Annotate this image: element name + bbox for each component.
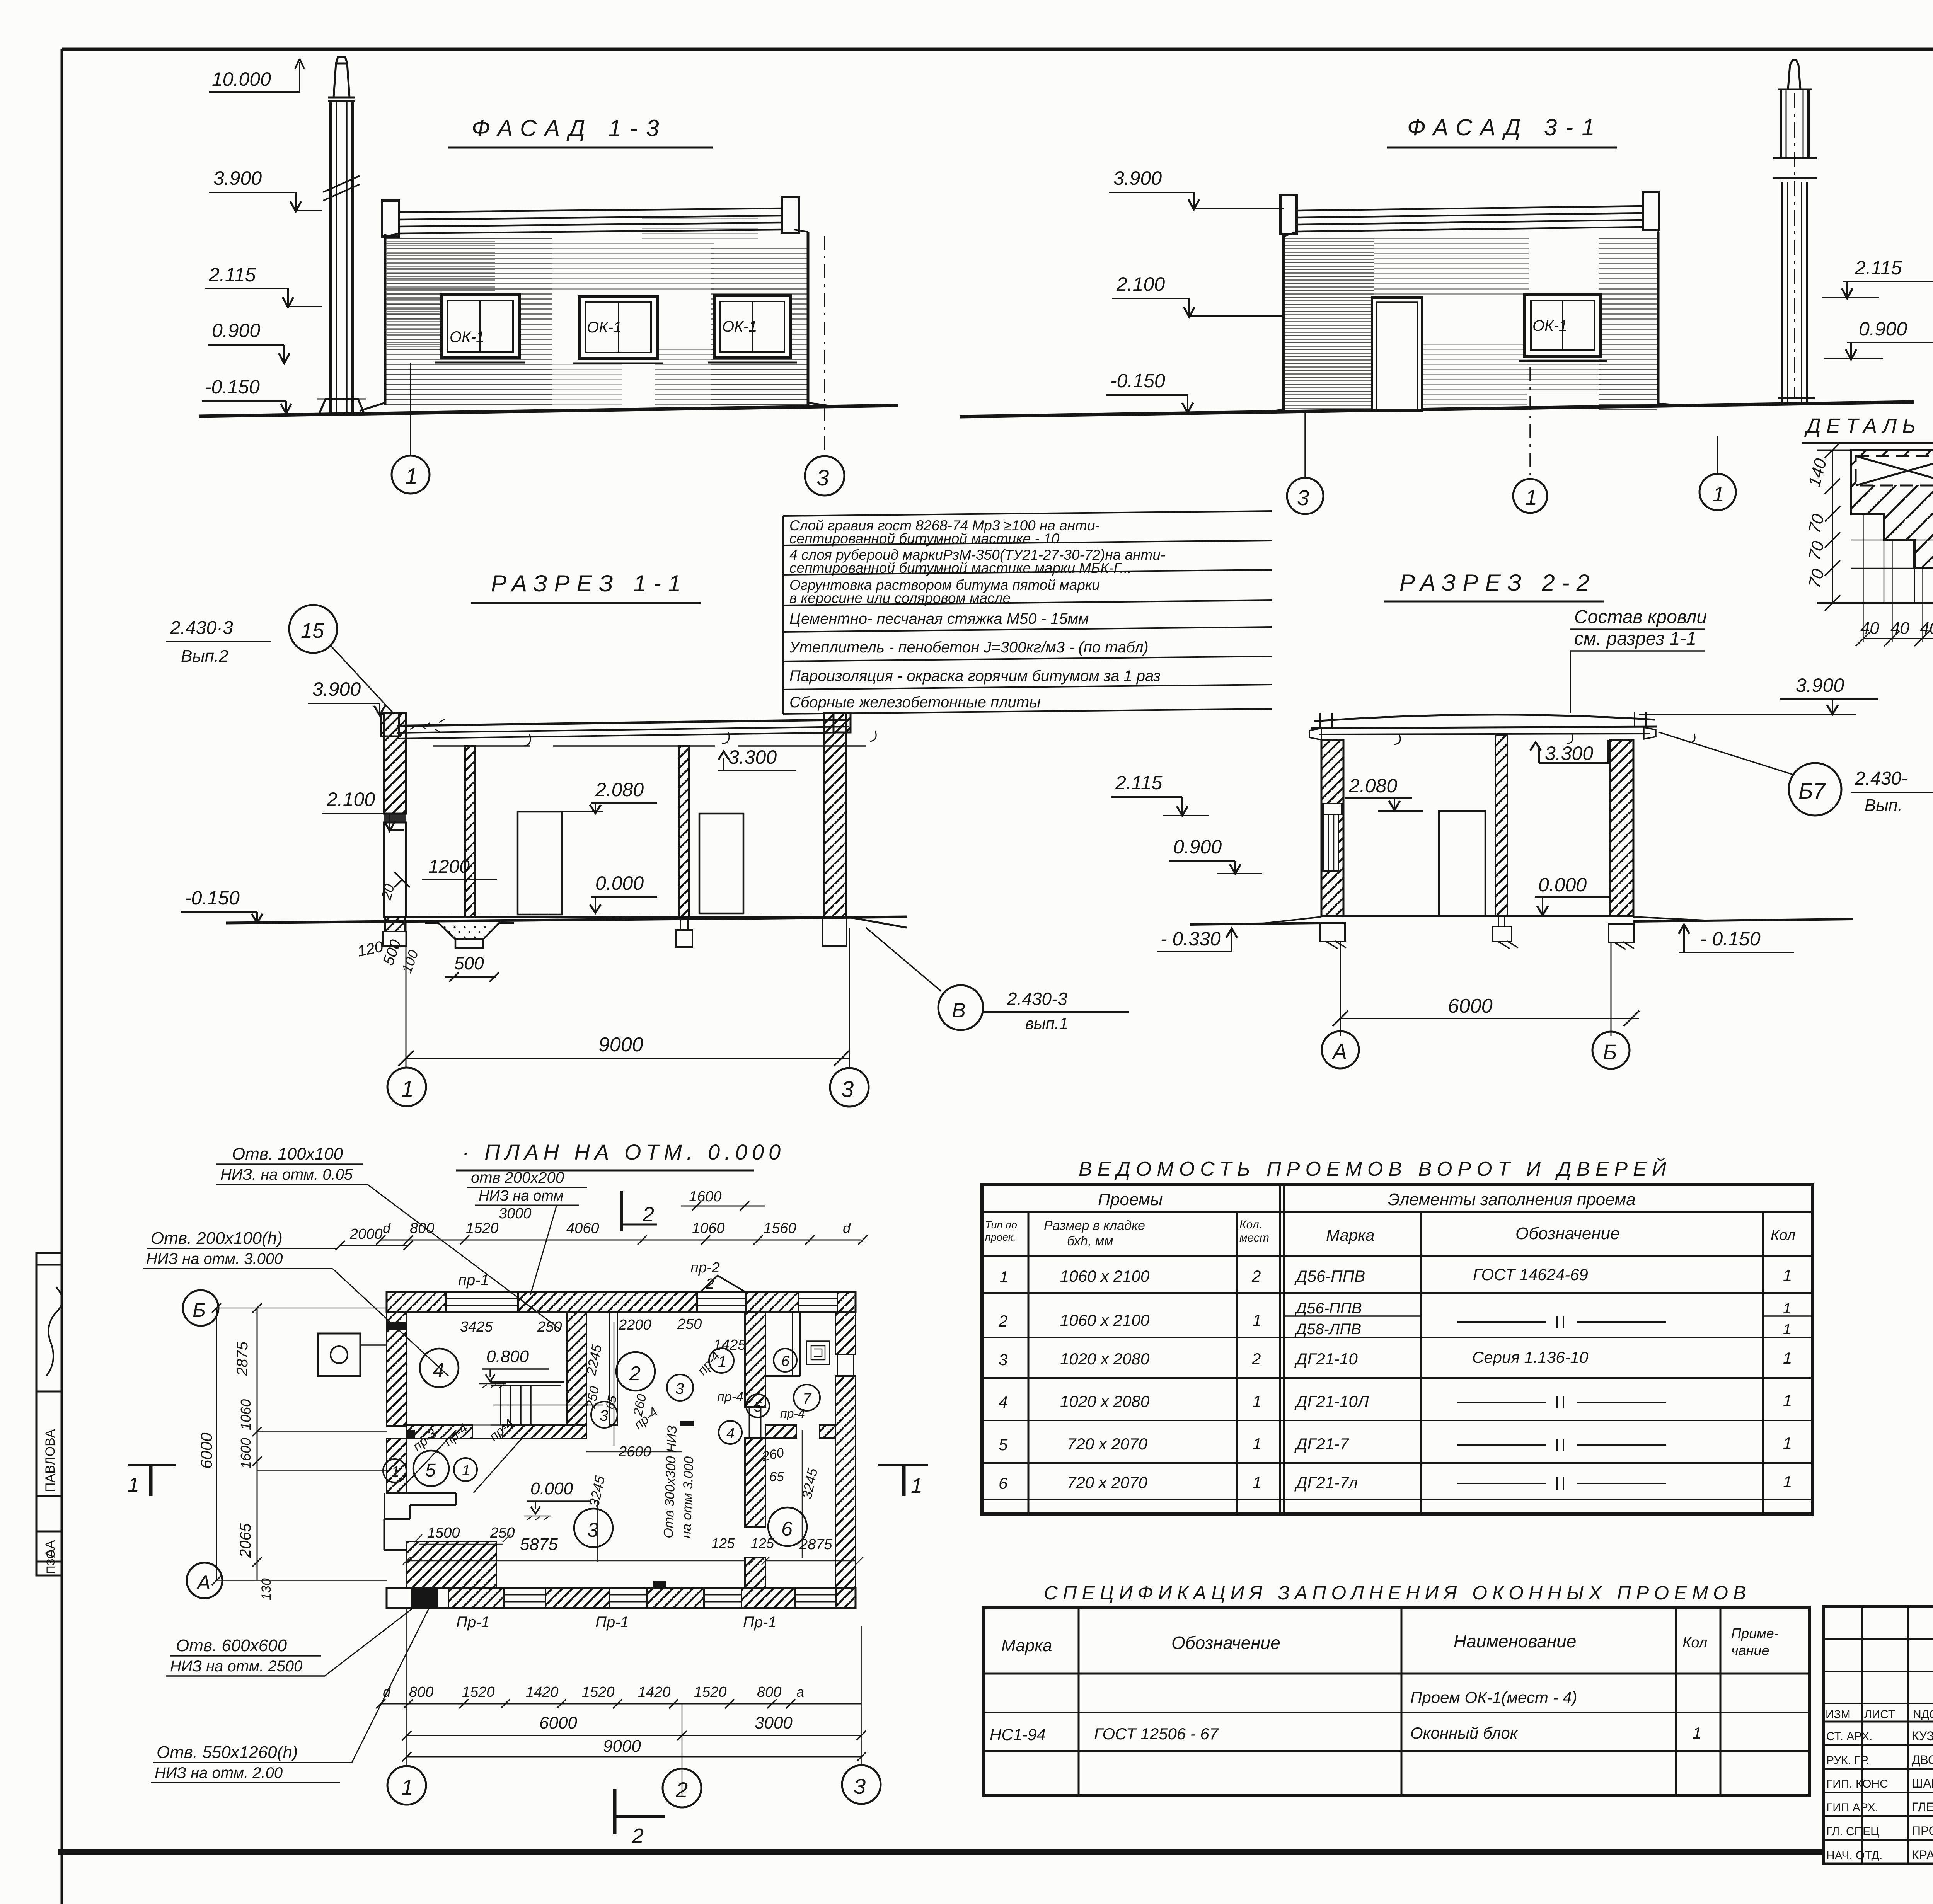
svg-text:ПАВЛОВА: ПАВЛОВА [43,1429,58,1492]
svg-text:РАЗРЕЗ 2-2: РАЗРЕЗ 2-2 [1399,570,1596,596]
svg-text:ГИП АРХ.: ГИП АРХ. [1826,1801,1878,1814]
dim 1200 (section 1-1) [394,857,497,887]
grid leader axis 3 (facade 1-3) [824,236,825,456]
title block signatures table grid [1824,1606,1933,1864]
svg-text:ДГ21-7л: ДГ21-7л [1294,1473,1358,1492]
window OK-1 no.1 [435,295,525,363]
svg-text:3425: 3425 [460,1319,493,1335]
svg-text:1: 1 [1525,485,1537,509]
grid bubble 3 (facade 3-1) [1287,478,1323,514]
svg-text:1500: 1500 [427,1525,460,1541]
facade 3-1 title underline [1387,147,1617,149]
svg-text:Обозначение: Обозначение [1171,1633,1280,1653]
window OK-1 no.2 [573,296,663,363]
svg-text:4: 4 [999,1393,1007,1411]
ground line under facade 3-1 [960,402,1914,417]
plan left outer wall [387,1312,407,1493]
svg-text:800: 800 [410,1220,434,1236]
plan bottom outer wall [387,1588,856,1609]
svg-text:0.900: 0.900 [1173,836,1222,858]
plan top dimension line [376,1189,868,1245]
svg-text:Вып.2: Вып.2 [181,647,228,666]
door opening 2 (section 1-1) [699,814,743,913]
plan room circle 3 small [667,1374,693,1401]
section 1-1 title underline [471,602,701,604]
svg-text:40: 40 [1920,619,1933,638]
level mark 3.300 (section 1-1) [718,746,796,771]
svg-text:2875: 2875 [234,1341,251,1376]
svg-text:3: 3 [1297,485,1309,510]
elevation mark 3.900 [209,167,322,211]
svg-text:6000: 6000 [539,1713,577,1732]
svg-text:НИЗ на отм. 3.000: НИЗ на отм. 3.000 [146,1250,283,1267]
plan room circle 3 mid [591,1402,617,1428]
plan leader label otv 200x200 [467,1169,587,1295]
svg-text:40: 40 [1890,619,1909,638]
svg-text:септированной битумной мастике: септированной битумной мастике - 10 [789,531,1060,547]
svg-text:1: 1 [1783,1266,1792,1284]
svg-text:1: 1 [401,1076,414,1102]
svg-text:Серия 1.136-10: Серия 1.136-10 [1472,1348,1589,1366]
svg-text:100: 100 [399,948,421,975]
plan stairs room4 [491,1382,603,1425]
svg-text:Б: Б [193,1299,206,1322]
svg-text:130: 130 [259,1578,274,1600]
svg-text:800: 800 [757,1684,781,1700]
svg-text:140: 140 [1805,456,1830,489]
svg-text:2875: 2875 [799,1536,832,1553]
level mark 0.000 (section 1-1) [590,872,657,913]
svg-text:1: 1 [1783,1349,1792,1367]
facade 1-3 wall shading [386,216,807,405]
svg-text:НИЗ на отм. 2.00: НИЗ на отм. 2.00 [155,1764,283,1781]
plan room circle 1 left [383,1459,406,1482]
plan interior wall below room4 [407,1425,586,1439]
svg-text:2.100: 2.100 [1116,273,1165,295]
elevation 3.900 (section 1-1) [308,678,385,715]
svg-text:6: 6 [781,1518,793,1540]
svg-text:20: 20 [378,882,397,902]
svg-text:Отв 300х300 НИЗ: Отв 300х300 НИЗ [661,1425,680,1538]
plan axis bubble 1 [387,1766,426,1805]
plan black door blocks [680,1421,694,1426]
svg-text:3.900: 3.900 [1113,167,1162,189]
svg-text:1420: 1420 [638,1684,671,1700]
svg-text:4: 4 [726,1425,735,1442]
svg-text:NДОКУМ: NДОКУМ [1913,1708,1933,1721]
svg-text:2.115: 2.115 [1115,772,1163,794]
plan room circle 1 upper [709,1348,734,1373]
svg-text:3.300: 3.300 [728,746,777,768]
plan room circle 4 [420,1349,459,1387]
svg-text:720 х 2070: 720 х 2070 [1067,1473,1147,1492]
svg-text:125: 125 [711,1535,735,1551]
svg-text:1560: 1560 [764,1220,796,1236]
circle B7 reference [1789,763,1841,816]
svg-text:10.000: 10.000 [212,68,271,90]
plan level mark 0.800 [479,1347,549,1388]
svg-text:1: 1 [128,1473,139,1497]
plan top outer wall [387,1292,856,1312]
section 1-1 ground line [226,917,907,923]
svg-text:1: 1 [1253,1473,1261,1492]
plan axis bubble 2 [663,1769,701,1807]
elevation -0.330 (section 2-2) [1157,928,1237,952]
plan pr-2 door swing triangle [690,1260,745,1292]
section 1-1 roof slab [397,719,876,746]
elevation mark 2.115 [205,264,322,307]
svg-text:120: 120 [356,938,385,960]
svg-text:Размер в кладке: Размер в кладке [1044,1218,1145,1233]
svg-text:1: 1 [1783,1322,1791,1338]
svg-text:1020 х 2080: 1020 х 2080 [1060,1350,1150,1368]
svg-text:125: 125 [751,1535,774,1551]
svg-text:500: 500 [454,953,484,973]
plan title underline [456,1170,754,1172]
grid leader axis 1 (facade 1-3) [410,363,411,455]
cornice axis leader [1717,436,1718,474]
svg-text:1: 1 [1253,1311,1261,1329]
plan leader label otv 600x600 [166,1600,423,1676]
svg-text:2.430-: 2.430- [1855,768,1907,789]
leader from circle 15 to parapet [331,645,394,714]
svg-text:1020 х 2080: 1020 х 2080 [1060,1392,1150,1410]
svg-text:СПЕЦИФИКАЦИЯ ЗАПОЛНЕНИЯ ОКОН: СПЕЦИФИКАЦИЯ ЗАПОЛНЕНИЯ ОКОННЫХ ПРОЕМОВ [1044,1582,1751,1604]
svg-text:ВЕДОМОСТЬ ПРОЕМОВ ВОРОТ И: ВЕДОМОСТЬ ПРОЕМОВ ВОРОТ И ДВЕРЕЙ [1079,1158,1672,1180]
svg-text:Д58-ЛПВ: Д58-ЛПВ [1294,1321,1361,1338]
plan inner dims top row [460,1316,746,1353]
plan inner dims misc [410,1343,833,1554]
chimney stack (facade 1-3) [317,57,366,414]
grid leader axis 1 (facade 3-1) [1529,367,1531,478]
svg-text:Оконный блок: Оконный блок [1410,1724,1519,1742]
svg-text:Кол.: Кол. [1239,1218,1262,1231]
svg-text:1: 1 [1783,1434,1792,1452]
elevation mark -0.150 [202,376,291,414]
section 1-1 partition B footing [676,917,692,947]
svg-text:2.430·3: 2.430·3 [170,618,233,638]
section 2-2 interior partition [1495,735,1507,916]
dim 9000 (section 1-1) [398,923,849,1067]
svg-text:НИЗ на отм. 2500: НИЗ на отм. 2500 [170,1658,302,1675]
svg-text:1060: 1060 [692,1220,725,1236]
svg-text:Отв. 550х1260(h): Отв. 550х1260(h) [157,1743,298,1762]
svg-text:3: 3 [675,1380,684,1397]
svg-text:1425: 1425 [713,1337,746,1353]
plan leader label otv 200x100 [143,1229,448,1376]
grid bubble A (section 2-2) [1322,1031,1359,1068]
window OK-1 no.3 [708,295,797,363]
section 1-1 left wall (cut, hatched) [383,713,407,946]
grid bubble 1 (facade 1-3) [392,456,430,494]
plan room circle 6 small [774,1349,797,1372]
svg-text:пр-1: пр-1 [458,1272,489,1289]
svg-text:2.100: 2.100 [326,789,375,810]
svg-text:ОК-1: ОК-1 [587,319,622,336]
svg-text:1: 1 [1783,1473,1792,1491]
plan room circle 7 [794,1385,820,1411]
sheet border frame left [61,49,63,1904]
svg-text:70: 70 [1805,539,1828,562]
svg-text:Пр-1: Пр-1 [595,1614,629,1631]
svg-text:3: 3 [999,1351,1007,1369]
svg-text:Б7: Б7 [1798,778,1827,804]
svg-text:НС1-94: НС1-94 [990,1725,1046,1744]
plan room circle 6 big [768,1507,807,1546]
svg-text:Состав кровли: Состав кровли [1574,607,1707,627]
svg-text:65: 65 [769,1470,784,1484]
plan axis bubble 3 [842,1765,881,1804]
svg-text:1: 1 [999,1268,1008,1286]
svg-text:септированной битумной мастике: септированной битумной мастике марки МБК… [789,560,1132,576]
plan room circle 1 mid [454,1458,477,1481]
svg-text:1600: 1600 [689,1189,722,1205]
dim 6000 (section 2-2) [1333,942,1639,1036]
plan level mark 0.000 [524,1479,591,1520]
svg-text:2: 2 [1251,1267,1261,1285]
plan section mark 1 right [878,1465,928,1497]
svg-text:Отв. 600х600: Отв. 600х600 [176,1636,287,1655]
cornice horizontal dims 40 40 40 [1856,514,1933,646]
top line of detail [1817,450,1933,451]
foundation trench (section 1-1) [425,923,514,948]
section 2-2 left wall [1321,740,1343,916]
plan leader label otv 550x1260 [151,1608,429,1783]
svg-text:3.900: 3.900 [312,678,361,700]
plan interior wall room4 right [567,1312,586,1425]
section 2-2 floor line [1343,915,1610,917]
plan section mark 2 top [622,1191,657,1231]
svg-text:Цементно- песчаная стяжка М50: Цементно- песчаная стяжка М50 - 15мм [789,610,1089,627]
section 1-1 left parapet cap [381,713,399,736]
dim 500 under trench [445,953,499,982]
svg-text:1520: 1520 [694,1684,727,1700]
svg-text:ПЗО: ПЗО [44,1550,57,1574]
plan dim 2000 top-left [336,1226,413,1250]
ref mark 2.430-3 vyp.2 [166,618,271,666]
svg-text:720 х 2070: 720 х 2070 [1067,1435,1147,1453]
window OK-1 (facade 3-1) [1519,295,1607,361]
svg-text:3.900: 3.900 [1796,674,1844,696]
svg-text:КУЗНЕЦОВА: КУЗНЕЦОВА [1912,1729,1933,1743]
grid bubble 1 (section 1-1) [387,1068,426,1106]
vedomost row 1 [999,1265,1792,1286]
svg-text:2.080: 2.080 [1348,775,1397,797]
svg-text:250: 250 [490,1525,515,1541]
grid leader axis 3 (facade 3-1) [1304,413,1306,478]
plan leader label otv 100x100 [216,1144,561,1330]
svg-text:3000: 3000 [755,1713,793,1732]
section 1-1 floor dotted bed [406,913,824,917]
svg-text:2.430-3: 2.430-3 [1007,989,1067,1009]
vedomost header texts [985,1190,1795,1248]
svg-text:40: 40 [1860,619,1879,638]
svg-text:3: 3 [854,1774,866,1798]
svg-text:2: 2 [675,1778,688,1802]
ground apron wedges facade 3-1 [1258,404,1686,413]
section 2-2 ground lines [1190,923,1321,925]
svg-text:Тип по: Тип по [985,1219,1017,1231]
svg-text:70: 70 [1805,567,1828,590]
svg-text:-0.150: -0.150 [1110,370,1165,392]
svg-text:ГЛЕБОВ: ГЛЕБОВ [1912,1800,1933,1814]
grid bubble 1 (facade 3-1) [1513,479,1547,513]
cornice brick mass hatched [1851,450,1933,603]
section 1-1 right wall (cut, hatched) [824,713,846,917]
svg-text:2: 2 [706,1276,714,1292]
note sostav krovli [1570,607,1707,713]
svg-text:d: d [843,1220,851,1236]
elevation mark 3.900 (facade 3-1) [1109,167,1284,209]
plan left dimension chain [197,1303,387,1600]
svg-text:ФАСАД 3-1: ФАСАД 3-1 [1407,114,1603,140]
ref text 2.430-3 vyp.2 (right of B7) [1851,768,1933,815]
section 1-1 interior partition A [465,746,475,917]
section 2-2 right wall footing [1609,924,1634,942]
plan porch walls bottom-left [384,1493,496,1588]
svg-text:на отм 3.000: на отм 3.000 [679,1456,696,1538]
svg-text:ОК-1: ОК-1 [450,329,484,346]
ref text 2.430-3 vyp.1 [983,989,1129,1032]
svg-text:пр-4: пр-4 [717,1390,743,1404]
svg-text:СТ. АРХ.: СТ. АРХ. [1826,1730,1872,1743]
svg-text:Марка: Марка [1326,1226,1374,1244]
svg-text:1060: 1060 [238,1399,254,1430]
svg-text:вып.1: вып.1 [1025,1014,1068,1032]
svg-text:15: 15 [301,619,324,642]
svg-text:5: 5 [754,1399,762,1415]
svg-text:Д56-ППВ: Д56-ППВ [1294,1300,1362,1317]
svg-text:2: 2 [632,1824,644,1848]
vedomost table grid [982,1185,1813,1514]
detail circle 15 [289,605,337,653]
svg-text:2: 2 [642,1203,654,1226]
svg-text:Пароизоляция - окраска горячим: Пароизоляция - окраска горячим битумом з… [789,668,1161,685]
svg-text:250: 250 [677,1316,702,1332]
elevation mark 0.900 (right of facade 3-1) [1824,318,1933,359]
svg-text:отв 200х200: отв 200х200 [471,1169,564,1186]
section 1-1 right apron slope [847,917,907,928]
section 2-2 right wall [1610,740,1633,916]
svg-text:1: 1 [1783,1301,1791,1317]
svg-text:5875: 5875 [520,1535,558,1554]
vedomost row 2 [998,1300,1791,1338]
svg-text:Отв. 100х100: Отв. 100х100 [232,1144,343,1163]
svg-text:2.115: 2.115 [1855,257,1902,279]
plan ventilation box outside [318,1333,387,1376]
svg-text:1: 1 [911,1474,922,1497]
title block signatures header row [1826,1708,1933,1721]
leader from B7 to cornice [1659,732,1793,775]
section 2-2 left wall footing [1320,923,1345,942]
plan bottom dimension lines [376,1609,866,1797]
svg-text:Наименование: Наименование [1454,1631,1576,1651]
elevation 3.900 (section 2-2 right) [1639,674,1878,714]
svg-text:пр-2: пр-2 [690,1260,720,1276]
svg-text:0.000: 0.000 [595,872,644,894]
sheet border frame bottom [58,1849,1822,1855]
svg-text:3000: 3000 [499,1206,532,1222]
chimney stack (facade 3-1) [1773,60,1817,404]
elevation mark -0.150 (facade 3-1) [1106,370,1193,413]
svg-text:Кол: Кол [1682,1635,1707,1651]
svg-text:Кол: Кол [1771,1227,1795,1243]
section 2-2 partition footing [1492,916,1512,942]
svg-text:Проемы: Проемы [1098,1190,1163,1209]
svg-text:1060 х 2100: 1060 х 2100 [1060,1311,1150,1329]
svg-text:1: 1 [405,464,418,489]
svg-text:1: 1 [1253,1392,1261,1410]
svg-text:Пр-1: Пр-1 [743,1614,777,1631]
svg-text:1: 1 [1253,1435,1261,1453]
svg-text:Б: Б [1603,1040,1617,1064]
grid bubble 3 (section 1-1) [830,1068,869,1107]
svg-text:6: 6 [999,1474,1008,1492]
left margin stamp signature [46,1287,62,1376]
plan room circle 3 big [574,1509,613,1547]
plan section mark 1 left [128,1465,176,1497]
svg-text:1060 х 2100: 1060 х 2100 [1060,1267,1150,1285]
svg-text:d: d [383,1220,391,1236]
svg-text:ОК-1: ОК-1 [722,318,757,335]
svg-text:-0.150: -0.150 [205,376,260,398]
ground line under facade 1-3 [199,405,898,416]
cornice vertical dims 140 70 70 70 [1805,443,1840,611]
svg-text:5: 5 [425,1460,436,1481]
svg-text:1: 1 [401,1775,413,1799]
plan room circle 5 big [413,1451,449,1486]
plan axis bubble B [183,1290,218,1326]
specification row 2 [990,1724,1701,1744]
circle B reference [938,985,983,1030]
svg-text:Пр-1: Пр-1 [456,1614,490,1631]
elevation 2.115 (section 2-2) [1111,772,1209,816]
svg-text:3: 3 [587,1519,598,1541]
door opening 1 (section 1-1) [518,812,562,915]
plan interior wall right horizontal [765,1425,835,1438]
section 2-2 footing arrows [1326,941,1634,949]
svg-text:РАЗРЕЗ 1-1: РАЗРЕЗ 1-1 [491,571,688,596]
svg-text:ДГ21-7: ДГ21-7 [1294,1435,1349,1453]
svg-text:ПРОНИН: ПРОНИН [1912,1824,1933,1838]
svg-text:65: 65 [603,1394,620,1410]
elevation -0.150 (section 1-1) [181,887,263,923]
roof slab crossed rect [1856,456,1933,485]
svg-text:ГОСТ 14624-69: ГОСТ 14624-69 [1473,1265,1588,1284]
plan room circle 5 small right [746,1394,769,1417]
svg-text:2: 2 [998,1312,1007,1330]
svg-text:Приме-: Приме- [1731,1625,1779,1641]
svg-text:6000: 6000 [1448,995,1493,1017]
svg-text:РУК. ГР.: РУК. ГР. [1826,1754,1869,1767]
svg-text:3.300: 3.300 [1545,743,1593,764]
step grid thin lines [1851,514,1933,603]
specification header texts [1001,1625,1779,1658]
svg-text:3.900: 3.900 [213,167,262,189]
svg-text:пр-4: пр-4 [780,1407,805,1420]
elevation -0.150 (section 2-2) [1679,925,1794,952]
svg-text:6000: 6000 [197,1432,215,1469]
facade 1-3 building outline [382,197,808,405]
leader B circle (section 1-1) [866,928,941,991]
svg-text:2: 2 [1251,1350,1261,1368]
svg-text:2000: 2000 [349,1226,383,1242]
svg-text:КРАСАВИН: КРАСАВИН [1912,1848,1933,1862]
svg-text:1: 1 [391,1464,399,1480]
section 1-1 interior partition B (column) [679,746,689,917]
svg-text:ЛИСТ: ЛИСТ [1864,1708,1895,1721]
svg-text:В: В [952,999,966,1022]
